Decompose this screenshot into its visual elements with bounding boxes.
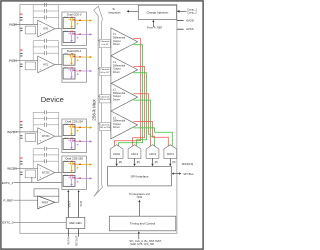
Dual CDS-0 box — [62, 12, 87, 46]
Dual CDS-1 Ch0 output wire — [75, 56, 90, 58]
Dual CDS-254 Ch0 switch marks — [71, 124, 73, 125]
ADC3 data bus arrow — [169, 158, 171, 163]
Dual CDS-1 box — [62, 49, 87, 83]
svg-text:Driver: Driver — [113, 97, 120, 101]
svg-text:CDS: CDS — [137, 195, 143, 199]
svg-text:Timing and Control: Timing and Control — [130, 222, 156, 226]
wire INT254 output — [55, 135, 62, 137]
ADC3 — [164, 145, 177, 159]
svg-text:INT255: INT255 — [42, 173, 50, 175]
svg-text:[8]: [8] — [155, 160, 158, 164]
svg-text:Dual CDS-254: Dual CDS-254 — [66, 120, 84, 124]
wire mux to driver 2 — [98, 95, 111, 97]
svg-text:Channels: Channels — [100, 124, 110, 126]
wire INT1 output — [55, 64, 62, 66]
svg-text:EXTC_0: EXTC_0 — [2, 221, 14, 225]
wire mux to driver 1 — [98, 68, 111, 70]
Dual CDS-1 Ch1 output wire — [75, 70, 90, 72]
svg-text:ADC0: ADC0 — [113, 152, 121, 156]
driver 2 positive output wire (red) — [134, 94, 151, 148]
Dual CDS-0 Ch0 capacitor — [68, 18, 70, 20]
Dual CDS-255 Ch0 output wire — [75, 164, 90, 166]
svg-text:256-k Mux: 256-k Mux — [91, 99, 96, 121]
Dual CDS-0 Ch1 output wire — [75, 33, 90, 35]
wire VREF to CDS — [67, 192, 69, 217]
Dual CDS-254 Ch1 capacitor — [68, 139, 70, 141]
Dual CDS-255 Ch1 reset switch wire — [71, 179, 73, 184]
pin ticks INT1 — [20, 50, 22, 51]
wire VCM to CDS — [78, 192, 80, 217]
REFOUT pin — [78, 229, 80, 237]
Dual CDS-255 Ch0 switch marks — [71, 161, 73, 162]
ADC1 data bus arrow — [134, 158, 136, 163]
SPI interface box — [108, 166, 172, 186]
pin ticks INT254 — [20, 121, 22, 122]
svg-text:0 to 63: 0 to 63 — [102, 43, 109, 46]
wire from P_REF to charge injector — [152, 22, 154, 28]
Dual CDS-0 Ch0 reset switch wire — [71, 21, 73, 26]
Dual CDS-254 Ch0 reset switch wire — [71, 128, 73, 133]
svg-text:INT254: INT254 — [42, 136, 50, 138]
driver 0 positive output wire (red) — [115, 39, 141, 148]
border frame — [1, 1, 203, 249]
svg-text:Dual CDS-1: Dual CDS-1 — [67, 49, 82, 53]
feedback capacitors INT1 — [33, 40, 44, 42]
Dual CDS-254 box — [62, 119, 87, 153]
ADC2 data bus arrow — [152, 158, 154, 163]
svg-text:INT0: INT0 — [43, 29, 49, 31]
svg-text:VCM: VCM — [80, 201, 83, 207]
op-amp INT255 — [38, 164, 55, 181]
wire mux to driver 0 — [98, 40, 111, 42]
channel range label 0 to 63 — [100, 39, 111, 47]
svg-text:REFIN: REFIN — [67, 237, 70, 245]
differential output driver U3 — [111, 83, 138, 111]
op-amp INT0 — [38, 20, 55, 37]
svg-text:SHR, SYB, LFF_SM: SHR, SYB, LFF_SM — [130, 242, 154, 246]
svg-text:ADC1: ADC1 — [131, 152, 139, 156]
Dual CDS-0 Ch0 output wire — [75, 20, 90, 22]
Dual CDS-255 box — [62, 156, 87, 190]
svg-text:Channels: Channels — [100, 69, 110, 71]
svg-text:REF GEN: REF GEN — [70, 221, 82, 225]
Dual CDS-254 Ch1 switch marks — [71, 138, 73, 139]
Dual CDS-1 Ch0 reset switch wire — [71, 58, 73, 63]
differential output driver U4 — [111, 111, 138, 139]
svg-text:ADC3: ADC3 — [167, 152, 175, 156]
wire mux to driver 3 — [98, 123, 111, 125]
svg-text:AVDD: AVDD — [186, 19, 194, 23]
device boundary box — [20, 5, 177, 234]
wire INT0 output — [55, 28, 62, 30]
input switch box INT1 — [25, 62, 35, 70]
svg-text:[8]: [8] — [137, 160, 140, 164]
PREF buffer feedback loop — [34, 189, 59, 196]
svg-text:[8]: [8] — [173, 160, 176, 164]
wire INT255 output — [55, 172, 62, 174]
Dual CDS-254 Ch1 output wire — [75, 140, 90, 142]
Dual CDS-254 Ch1 reset switch wire — [71, 142, 73, 147]
comp pins — [177, 10, 187, 12]
ADC2 — [146, 145, 159, 159]
Dual CDS-1 Ch0 capacitor — [68, 55, 70, 57]
svg-text:Device: Device — [41, 95, 64, 104]
svg-text:128 to 191: 128 to 191 — [100, 98, 111, 101]
Dual CDS-1 Ch1 switch marks — [71, 67, 73, 68]
svg-text:ADC2: ADC2 — [149, 152, 157, 156]
Dual CDS-1 Ch1 capacitor — [68, 69, 70, 71]
driver 1 positive output wire (red) — [133, 66, 145, 147]
AVDD pin — [177, 20, 184, 22]
Dual CDS-255 Ch1 switch marks — [71, 175, 73, 176]
svg-text:From P_REF: From P_REF — [147, 25, 163, 29]
pin ticks INT0 — [20, 14, 22, 15]
input switch box INT254 — [25, 134, 35, 142]
svg-text:SPI Bus: SPI Bus — [183, 172, 194, 176]
svg-text:64 to 127: 64 to 127 — [100, 71, 110, 74]
svg-text:Driver: Driver — [113, 70, 120, 74]
PREF buffer amp — [38, 196, 55, 209]
feedback capacitors INT0 — [33, 4, 44, 6]
Dual CDS-254 Ch0 capacitor — [68, 125, 70, 127]
svg-text:SDO[3:0]: SDO[3:0] — [182, 162, 194, 166]
input switch box INT255 — [25, 170, 35, 178]
driver 3 negative output wire (green) — [134, 128, 173, 148]
Dual CDS-0 Ch1 reset switch wire — [71, 35, 73, 40]
differential output driver U1 — [111, 28, 138, 56]
svg-text:Dual CDS-0: Dual CDS-0 — [67, 13, 82, 17]
AVSS pin — [177, 28, 184, 30]
channel range label 192 to 255 — [100, 123, 111, 131]
Dual CDS-255 Ch1 capacitor — [68, 176, 70, 178]
wire charge injector to integrators — [129, 10, 139, 12]
input switch box INT0 — [25, 26, 35, 34]
driver 3 positive output wire (red) — [134, 122, 169, 148]
svg-text:Channels: Channels — [100, 41, 110, 43]
svg-text:Integrators: Integrators — [108, 10, 121, 14]
Dual CDS-0 Ch1 switch marks — [71, 31, 73, 32]
svg-text:[8]: [8] — [119, 160, 122, 164]
ADC1 — [128, 145, 141, 159]
svg-text:INT1: INT1 — [43, 65, 49, 67]
SPI bus arrow — [174, 173, 179, 175]
svg-text:P_REF: P_REF — [3, 198, 13, 202]
svg-text:AVSS: AVSS — [186, 27, 194, 31]
256-to-4 mux slab — [94, 6, 103, 196]
timing and control box — [109, 216, 176, 231]
wire IN[2]54 to INT254 — [15, 131, 38, 133]
control inputs arrow — [138, 234, 140, 240]
wire IN[0]1 to INT1 — [15, 59, 38, 61]
op-amp INT1 — [38, 56, 55, 72]
svg-text:Driver: Driver — [113, 42, 120, 46]
svg-text:VREF: VREF — [68, 200, 71, 207]
svg-text:Driver: Driver — [113, 125, 120, 129]
svg-text:Dual CDS-255: Dual CDS-255 — [66, 157, 84, 161]
svg-text:REFOUT: REFOUT — [76, 235, 79, 246]
channel range label 64 to 127 — [100, 67, 111, 75]
Dual CDS-0 Ch0 switch marks — [71, 17, 73, 18]
wire timing to integrators — [138, 202, 140, 216]
op-amp INT254 — [38, 128, 55, 145]
Dual CDS-1 Ch1 reset switch wire — [71, 72, 73, 77]
feedback capacitors INT254 — [33, 111, 44, 113]
feedback capacitors INT255 — [33, 148, 44, 150]
Dual CDS-255 Ch0 reset switch wire — [71, 165, 73, 170]
Dual CDS-254 Ch0 output wire — [75, 127, 90, 129]
Dual CDS-255 Ch1 output wire — [75, 177, 90, 179]
ADC0 — [110, 145, 123, 159]
svg-text:Comp_2: Comp_2 — [187, 11, 197, 15]
svg-text:Charge Injection: Charge Injection — [146, 10, 168, 14]
channel range label 128 to 191 — [100, 95, 111, 103]
svg-text:Channels: Channels — [100, 97, 110, 99]
driver 2 negative output wire (green) — [134, 100, 155, 147]
driver 1 negative output wire (green) — [134, 73, 147, 148]
differential output driver U2 — [111, 56, 138, 84]
reference generator box — [66, 217, 85, 228]
charge injector box — [138, 5, 176, 19]
svg-text:192 to 255: 192 to 255 — [100, 126, 111, 129]
wire IN[0]0 to INT0 — [15, 23, 38, 25]
svg-text:SPI Interface: SPI Interface — [131, 174, 149, 178]
wire IN[2]55 to INT255 — [15, 167, 38, 169]
Dual CDS-0 Ch1 capacitor — [68, 32, 70, 34]
REFIN pin — [67, 229, 69, 237]
Dual CDS-255 Ch0 capacitor — [68, 162, 70, 164]
pin ticks INT255 — [20, 158, 22, 159]
svg-text:PREF: PREF — [42, 201, 49, 204]
svg-text:EXTC_1: EXTC_1 — [2, 181, 14, 185]
ADC0 data bus arrow — [116, 158, 118, 163]
Dual CDS-1 Ch0 switch marks — [71, 53, 73, 54]
driver 0 negative output wire (green) — [119, 45, 143, 148]
